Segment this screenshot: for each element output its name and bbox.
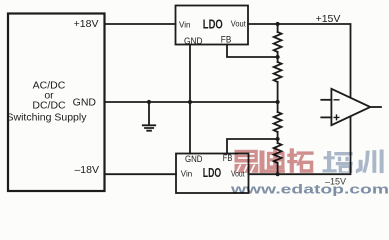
node FB2 junction — [276, 137, 280, 141]
node ground drop junction — [147, 100, 151, 104]
svg-text:GND: GND — [73, 97, 97, 109]
ground symbol — [143, 125, 155, 130]
op-amp output wire — [370, 106, 381, 108]
ground stem — [148, 102, 150, 125]
svg-text:–18V: –18V — [74, 164, 99, 176]
node divider bottom junction — [276, 172, 280, 176]
resistor R2 — [274, 62, 282, 82]
wire U1 GND to U2 GND through GND bus — [189, 45, 191, 154]
op-amp U3 triangle — [331, 89, 370, 125]
wire U1 FB to divider node — [227, 45, 278, 58]
svg-text:LDO: LDO — [203, 16, 223, 31]
svg-text:Switching Supply: Switching Supply — [7, 112, 88, 124]
svg-text:Vin: Vin — [181, 169, 192, 178]
resistor R4 — [274, 143, 282, 163]
node FB1 junction — [276, 55, 280, 59]
op-amp plus sign — [334, 115, 339, 120]
LDO U1 box — [176, 6, 249, 45]
resistor R3 — [274, 112, 282, 132]
svg-text:Vin: Vin — [179, 20, 190, 29]
svg-text:GND: GND — [184, 36, 203, 47]
wire +18V supply to U1 Vin — [105, 23, 176, 25]
watermark char tuo (red) — [287, 148, 313, 173]
op-amp non-inverting input stub — [321, 116, 331, 118]
wire U1 Vout to +15V rail and op-amp V+ pin — [248, 24, 351, 98]
watermark char di (red) — [260, 148, 285, 173]
wire -18V supply to U2 Vin — [105, 173, 177, 175]
LDO U2 box — [176, 154, 249, 194]
watermark chinese characters (drawn blocks) — [234, 148, 384, 174]
svg-text:Vout: Vout — [231, 19, 247, 28]
node GND link junction — [188, 100, 192, 104]
svg-text:FB: FB — [221, 35, 232, 46]
node +18V/divider top junction — [276, 22, 280, 26]
watermark char yi (red) — [234, 150, 259, 173]
op-amp minus sign — [334, 99, 339, 101]
watermark char xun (blue) — [356, 150, 384, 174]
node divider GND junction — [276, 100, 280, 104]
wire resistor chain vertical — [277, 24, 279, 174]
wire GND bus — [105, 101, 278, 103]
resistor R1 — [274, 32, 282, 52]
supply box AC/DC-DC/DC Switching Supply — [8, 14, 105, 192]
svg-text:GND: GND — [185, 154, 203, 165]
wire U2 Vout to -15V rail and op-amp V- pin — [249, 117, 351, 175]
svg-text:+18V: +18V — [74, 18, 99, 30]
wire U2 FB to divider node — [227, 139, 278, 154]
op-amp inverting input stub — [321, 99, 331, 101]
svg-text:DC/DC: DC/DC — [32, 100, 66, 112]
svg-text:LDO: LDO — [203, 165, 221, 180]
svg-text:www.edatop.com: www.edatop.com — [230, 181, 389, 196]
svg-text:+15V: +15V — [316, 13, 341, 25]
watermark char pei (blue) — [323, 151, 353, 173]
svg-text:FB: FB — [223, 153, 233, 164]
